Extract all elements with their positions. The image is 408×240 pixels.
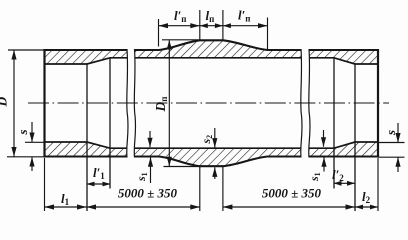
dimension line s left lower [31,157,33,171]
pipe centerline (dash-dot) [28,102,389,104]
dimension line Dp [168,40,170,166]
arrow 5000-1 left [87,204,97,209]
extension line plateau end down [222,166,224,211]
svg-text:s: s [15,129,30,135]
pipe wall section top-left (hatched) [45,50,128,64]
extension line left end face down [44,158,46,211]
dimension line s2 upper [214,128,216,148]
svg-text:s2: s2 [199,135,214,145]
arrow l2-prime right [347,181,355,186]
arrow s right upper [395,133,400,143]
dimension line s1 right lower [323,157,325,171]
arrow lp left [200,23,208,28]
dimension line D [13,50,15,157]
arrow s1 left lower [148,157,153,167]
svg-text:5000 ± 350: 5000 ± 350 [118,186,178,201]
arrow D top [11,50,16,60]
arrow s1 left upper [147,138,152,148]
dimension line bottom left span [45,206,200,208]
extension line inner upset left [25,141,45,143]
extension line plateau start [199,10,201,40]
arrow l2 right [370,205,378,210]
break line middle segment end [301,49,302,158]
arrow s left lower [29,157,34,167]
arrow lp right [215,23,223,28]
extension line plateau start down [199,166,201,211]
arrow s1 right upper [321,137,326,147]
svg-text:s1: s1 [307,172,322,182]
svg-text:l′2: l′2 [332,167,344,183]
svg-text:l′п: l′п [238,8,250,24]
inner surface bottom-middle [135,147,302,149]
inner surface top-right (internal upset end) [309,58,378,64]
edge line left transition end [109,58,111,189]
dimension line bottom right span [223,206,378,208]
edge line right upset boundary [354,64,356,211]
edge line right transition start [333,58,335,189]
arrow l2-prime left [334,181,342,186]
arrow l1-prime left [87,182,95,187]
arrow 5000-2 left [223,204,233,209]
arrow s2 lower [212,167,217,177]
arrow lp-prime-1 right [190,23,200,28]
extension line outer top-left [8,49,45,51]
arrow lp-prime-1 left [159,23,169,28]
svg-text:l′п: l′п [174,8,186,24]
svg-text:l′1: l′1 [93,165,105,181]
svg-text:s: s [383,130,398,136]
edge line left upset boundary [86,64,88,211]
svg-text:5000 ± 350: 5000 ± 350 [262,186,322,201]
arrow s2 upper [212,138,217,148]
outer surface top-right segment [309,49,378,51]
inner surface bottom-right (internal upset end) [309,142,378,148]
dimension line s left upper [31,122,33,142]
dimension line s right upper [397,123,399,143]
outer surface bottom-left segment [44,155,127,157]
arrow D bottom [11,147,16,157]
extension line upset rise start [158,19,160,47]
dimension line top [159,25,268,27]
pipe wall section top-right (hatched) [309,50,378,64]
outer surface bottom-middle segment with upset [135,157,302,167]
pipe wall section bottom-right (hatched) [309,142,378,157]
inner surface top-left (internal upset end) [45,58,128,64]
svg-text:s1: s1 [134,172,149,182]
arrow lp-prime-2 right [258,23,268,28]
extension line upset plateau bottom [164,166,201,168]
extension line right end face down [377,158,379,211]
arrow l1 right [77,204,87,209]
inner surface bottom-left (internal upset end) [45,142,128,148]
arrow s1 right lower [321,157,326,167]
extension line outer bottom right [378,156,405,158]
dimension line s1 left upper [149,131,151,147]
inner surface top-middle [135,57,302,59]
extension line plateau end [222,10,224,40]
right pipe end face [377,49,379,158]
arrow lp-prime-2 left [223,23,231,28]
arrow s right lower [395,157,400,167]
break line middle segment start [134,49,135,158]
extension line upset plateau top [162,39,200,41]
pipe wall section bottom-middle (hatched) [135,148,302,166]
pipe wall section bottom-left (hatched) [45,142,128,157]
svg-text:Dп: Dп [153,97,169,113]
dimension line l2-prime [334,182,356,184]
arrow l2 left [355,205,363,210]
arrow 5000-2 right [346,204,356,209]
svg-text:l1: l1 [61,191,70,207]
svg-text:l2: l2 [362,189,371,205]
dimension line s1 right upper [323,130,325,147]
svg-text:lп: lп [206,8,215,24]
arrow Dp top [167,40,172,50]
break line left segment end [127,49,128,158]
break line right segment start [309,49,310,158]
outer surface bottom-right segment [309,155,378,157]
dimension line l1-prime [87,183,111,185]
arrow l1-prime right [103,182,111,187]
arrow Dp bottom [167,157,172,167]
pipe wall section top-middle (hatched) [135,40,302,58]
dimension line s right lower [397,157,399,172]
arrow 5000-1 right [190,204,200,209]
extension line upset fall end [267,18,269,50]
extension line outer bottom-left [7,156,45,158]
outer surface top-left segment [44,49,127,51]
left pipe end face [43,49,45,158]
dimension line s1 left lower [150,157,152,183]
dimension line s2 lower [214,167,216,179]
svg-text:D: D [0,97,10,108]
extension line inner upset right [378,142,405,144]
arrow l1 left [45,204,55,209]
outer surface top-middle segment with upset [135,40,302,50]
arrow s left upper [29,133,34,143]
